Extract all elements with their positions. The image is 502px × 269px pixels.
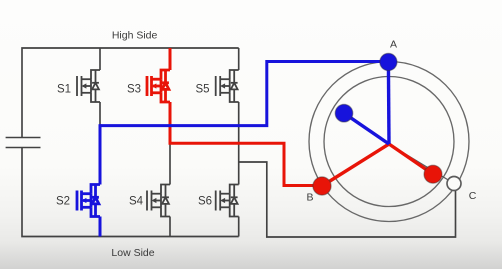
wire phase B current path (S3 through node B wire, red) [170,48,316,186]
wire source lead S4 [169,217,171,237]
wire source lead S2 (blue) [99,217,102,237]
svg-text:S3: S3 [127,84,141,96]
svg-text:S1: S1 [57,84,71,96]
transistor S3 (active, red) [147,70,170,102]
svg-text:High Side: High Side [112,30,158,42]
motor terminal B (red dot) [313,177,331,195]
transistor S1 [77,70,100,102]
transistor S5 [216,70,239,102]
wire S3/S4 leg lower (node B to S4 drain) [169,143,171,184]
svg-text:S4: S4 [129,196,144,208]
svg-text:B: B [306,192,313,204]
wire S5/S6 leg with phase C tap [238,102,240,185]
rotor pole dot N (blue) [335,104,353,122]
motor stator inner circle [324,77,454,207]
svg-text:S5: S5 [195,84,209,96]
rotor pole dot S (red) [424,165,442,183]
motor terminal C (open circle) [447,177,461,191]
svg-text:A: A [390,39,397,51]
transistor S4 [147,185,170,217]
winding C (center to terminal C, de-energized) [389,144,454,184]
svg-text:C: C [469,190,477,202]
wire phase C (S5/S6 midpoint to motor terminal C) [239,162,456,237]
svg-text:S6: S6 [198,196,212,208]
motor stator outer circle [309,62,469,222]
svg-text:S2: S2 [56,196,70,208]
motor terminal A (blue dot) [380,53,397,70]
wire phase A (node A to motor terminal A, blue) [100,62,384,126]
wire bottom rail DC- and left rail lower [22,148,239,237]
rotor pole N (blue, center to upper left) [344,113,389,144]
wire source lead S6 [238,217,240,237]
transistor S6 [216,185,239,217]
svg-text:Low Side: Low Side [111,247,154,259]
wire S2 leg upper (node A down to S2, blue) [99,124,102,184]
winding A (terminal A to center, energized blue) [387,62,391,144]
winding B (terminal B to center, energized red) [322,144,389,186]
wire top rail DC+ and left rail upper [22,48,239,138]
wire drain lead S1 [99,48,101,70]
rotor pole S (red, center to lower right) [389,144,433,174]
capacitor C1 [6,138,41,148]
transistor S2 (active, blue) [77,185,100,217]
wire source lead S1 to node A [99,102,101,126]
wire drain lead S5 [238,48,240,70]
